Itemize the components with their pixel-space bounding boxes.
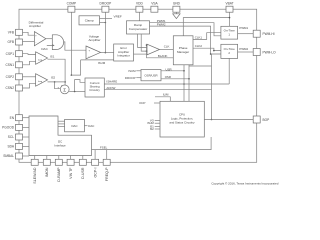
wire VFB to diff amp (23, 32, 35, 35)
pin CSP2 (6, 74, 23, 80)
pin CSP1 (6, 51, 23, 57)
svg-text:PWM-LO: PWM-LO (263, 50, 277, 54)
wire CLK2 (193, 44, 221, 51)
pin PWM-LO (253, 49, 276, 56)
i2c interface block (29, 116, 92, 156)
pin BOP (253, 116, 269, 123)
wire isum corner (71, 60, 80, 75)
wire diff amp to mux (46, 38, 52, 40)
wire OCP (139, 101, 160, 105)
wire voltage amp out to error amp (101, 52, 114, 54)
svg-text:FREQ-P: FREQ-P (105, 167, 109, 181)
svg-text:SDA: SDA (7, 145, 14, 149)
svg-text:Copyright © 2016, Texas Instru: Copyright © 2016, Texas Instruments Inco… (211, 182, 278, 186)
wire adow down to bop (211, 54, 213, 120)
svg-text:DROOP: DROOP (100, 1, 112, 5)
wire VO (150, 118, 160, 122)
svg-text:PWM2: PWM2 (239, 47, 248, 51)
wire ramp pwm1 (150, 23, 221, 36)
svg-text:and Status Circuitry: and Status Circuitry (169, 120, 195, 124)
phase manager block (173, 36, 193, 65)
wire USR out (161, 67, 184, 71)
svg-text:CLK2: CLK2 (195, 44, 203, 48)
svg-text:PWM-HI: PWM-HI (263, 32, 275, 36)
wire on-time 2 down to ishare (228, 58, 230, 84)
wire SMBALRT stub (23, 155, 30, 157)
wire clamp lower to droop line (100, 22, 107, 24)
wire ISUM cpu (147, 121, 160, 125)
wire PGOOD stub (23, 126, 30, 128)
error amplifier integrator block (114, 44, 134, 61)
pin VINTF (67, 159, 74, 179)
svg-text:ADOW: ADOW (106, 86, 115, 90)
ground (173, 12, 180, 18)
wire GFB to diff amp (23, 40, 35, 42)
pwm comparator U2 (147, 44, 160, 55)
svg-text:OSR/USR: OSR/USR (144, 73, 157, 77)
wire ramp pwm2 (150, 26, 221, 55)
summer sigma (58, 85, 70, 94)
svg-text:EN: EN (10, 116, 15, 120)
wire COMP down (71, 12, 73, 76)
wire CLK1 (193, 33, 221, 40)
svg-text:BOP: BOP (263, 118, 270, 122)
svg-text:ILIM: ILIM (163, 93, 169, 97)
wire ISHARE rail (104, 79, 229, 84)
svg-text:OCP-I: OCP-I (94, 168, 98, 178)
pin PGOOD (2, 124, 22, 130)
wire DAC input to mux (47, 44, 55, 46)
svg-text:DAC: DAC (88, 124, 94, 128)
svg-text:GFB: GFB (7, 40, 14, 44)
pin VBAT (225, 1, 233, 12)
wire ramp to comparator input 1 (138, 34, 148, 47)
svg-text:IMON: IMON (45, 167, 49, 177)
svg-text:CSP2: CSP2 (6, 75, 15, 79)
svg-text:Amplifier: Amplifier (88, 38, 100, 42)
wire bottom pin stubs (35, 150, 107, 160)
wire i2c to dac 3 (58, 126, 65, 128)
pin FREQ-P (103, 159, 110, 181)
wire EN stub (23, 117, 30, 119)
svg-text:CSP1: CSP1 (6, 52, 15, 56)
pin VDD (136, 1, 144, 12)
pin EN (10, 115, 23, 121)
wire VDD to ramp block (138, 12, 140, 21)
svg-text:Interface: Interface (54, 143, 66, 147)
svg-text:Clamp: Clamp (85, 19, 94, 23)
svg-text:BLANK: BLANK (158, 54, 168, 58)
svg-text:VFB: VFB (8, 31, 14, 35)
wire summer out (69, 91, 85, 93)
pin PWM-HI (253, 30, 274, 37)
wire IS1 cpu (150, 124, 160, 128)
node DROOP to OSR box label (125, 76, 141, 80)
pin VFB (8, 29, 23, 35)
svg-text:Amplifier: Amplifier (29, 24, 41, 28)
wire CSP2 (23, 76, 36, 78)
svg-text:CLK: CLK (164, 45, 170, 49)
node VREF label (114, 14, 122, 18)
wire BLANK (146, 44, 174, 58)
svg-text:GND: GND (173, 1, 181, 5)
pin GND (173, 1, 181, 12)
OSR USR block (141, 70, 161, 81)
svg-text:FSEL: FSEL (100, 146, 108, 150)
wire FSEL (92, 137, 212, 150)
svg-text:Compensator: Compensator (129, 27, 148, 31)
svg-text:Manager: Manager (177, 50, 189, 54)
wire PWM1 out (238, 26, 254, 34)
wire CSN2 (23, 83, 36, 88)
wire IS2 branch to summer (55, 82, 61, 89)
node DAC label (41, 47, 48, 51)
svg-text:ISUM: ISUM (98, 61, 106, 65)
svg-text:VBAT: VBAT (225, 1, 233, 5)
svg-text:COMP: COMP (67, 1, 77, 5)
copyright note (211, 182, 278, 186)
svg-text:IS2: IS2 (150, 127, 155, 131)
on-time 1 block (221, 26, 238, 39)
svg-text:VDD: VDD (136, 1, 143, 5)
node ILIM label (155, 93, 170, 102)
pin CSN2 (5, 85, 22, 91)
pin OCP-I (92, 159, 99, 177)
dac block (65, 119, 85, 131)
wire clamp to VREF (100, 18, 113, 20)
wire ramp to comparator input 2 (141, 34, 147, 52)
wire CSP1 (23, 53, 36, 56)
on-time 2 block (221, 44, 238, 58)
svg-text:Integrator: Integrator (117, 53, 129, 57)
pin SCL (8, 134, 23, 140)
svg-text:VSA: VSA (151, 1, 158, 5)
chip outline (19, 9, 257, 162)
wire IS1 (48, 59, 66, 85)
pin GFB (7, 39, 22, 45)
ramp compensator block (127, 21, 150, 34)
svg-text:ISUM: ISUM (128, 69, 136, 73)
wire PWM2 out (238, 47, 254, 52)
svg-text:Circuitry: Circuitry (89, 88, 100, 92)
svg-text:IS2: IS2 (51, 75, 56, 79)
wire DROOP down (105, 12, 107, 53)
wire i2c to dac 2 (58, 123, 65, 125)
svg-text:-: - (89, 56, 90, 59)
current sharing circuitry block (85, 78, 104, 97)
svg-text:PGOOD: PGOOD (2, 126, 15, 130)
wire mid cross (189, 65, 212, 67)
pin D-USR (79, 159, 86, 179)
pin SMBALRT (3, 153, 22, 159)
node ISUM label (98, 61, 106, 65)
wire CSN1 (23, 61, 36, 65)
svg-text:SLEW/AD: SLEW/AD (33, 167, 37, 184)
svg-text:SMBAL: SMBAL (3, 154, 14, 158)
wire mux out to voltage amp (64, 42, 86, 50)
svg-text:CSN1: CSN1 (5, 63, 14, 67)
svg-text:DAC: DAC (71, 124, 77, 128)
wire IS2 cpu (150, 127, 160, 131)
node IS1 label (50, 54, 55, 58)
pin IMON (43, 159, 50, 177)
pin SLEWA (31, 159, 38, 183)
svg-text:VIN TF: VIN TF (69, 167, 73, 179)
wire phase manager to cpu 2 (188, 65, 190, 102)
node ISUM to OSR box label (128, 69, 141, 73)
wire SCL stub (23, 136, 30, 138)
wire isum rail up (75, 80, 85, 92)
wire SDA stub (23, 145, 30, 147)
svg-text:OCP: OCP (139, 101, 145, 105)
pin DROOP (100, 1, 112, 12)
wire VBAT rail (183, 12, 230, 36)
wire CLK comparator to phase manager (160, 45, 174, 50)
svg-text:D-USR: D-USR (81, 167, 85, 179)
mux gate after diff amp (52, 35, 63, 50)
wire i2c to dac 1 (58, 120, 65, 122)
pin SDA (7, 143, 22, 149)
pin VSA (151, 1, 159, 12)
svg-text:CLK1: CLK1 (195, 35, 203, 39)
svg-text:VREF: VREF (114, 14, 122, 18)
pin COMP (67, 1, 77, 12)
svg-text:DROOP: DROOP (125, 76, 136, 80)
cpu logic block (160, 101, 204, 137)
clamp block (79, 16, 100, 25)
node IS2 label (51, 75, 56, 79)
wire BOP (204, 119, 253, 121)
wire ISUM into error amp (81, 59, 114, 61)
wire OSR out (161, 75, 189, 79)
svg-text:ISHARE: ISHARE (106, 79, 117, 83)
wire error amp to comparator (134, 53, 148, 55)
wire dac out (84, 124, 94, 128)
voltage amplifier (86, 34, 101, 58)
current sense amp 2 (36, 74, 48, 87)
wire IS2 (48, 81, 66, 83)
svg-text:Σ: Σ (63, 87, 66, 92)
svg-text:IS1: IS1 (50, 54, 55, 58)
node PWM2 ramp label (157, 23, 166, 27)
svg-text:SCL: SCL (8, 135, 14, 139)
pin D-RAMP (55, 159, 62, 181)
wire phase manager to cpu 1 (183, 65, 185, 102)
svg-text:PWM1: PWM1 (239, 26, 248, 30)
wire ADOW rail (104, 86, 211, 90)
pin CSN1 (5, 62, 22, 68)
svg-text:CSN2: CSN2 (5, 86, 14, 90)
svg-text:D-RAMP: D-RAMP (57, 167, 61, 182)
svg-text:DAC: DAC (41, 47, 48, 51)
differential amplifier U1 (29, 21, 46, 46)
current sense amp 1 (36, 52, 48, 65)
node PWM1 ramp label (157, 19, 166, 23)
